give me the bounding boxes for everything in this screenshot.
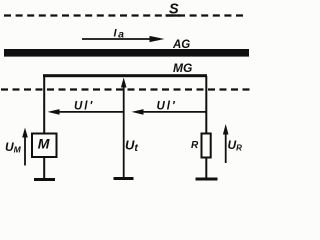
voltage arrow UM xyxy=(5,128,28,166)
wire: left riser xyxy=(43,76,45,134)
voltage arrow Ul' right xyxy=(132,101,207,115)
ground terminal left xyxy=(34,178,55,181)
svg-text:MG: MG xyxy=(173,61,192,75)
resistor R xyxy=(202,134,211,158)
svg-text:Ia: Ia xyxy=(114,28,126,41)
wire: circuit top rail xyxy=(43,74,207,77)
wire: below motor xyxy=(43,157,45,179)
voltage arrow UR xyxy=(223,124,242,163)
wire: right riser xyxy=(205,76,207,134)
voltage arrow Ut (middle riser) xyxy=(121,78,138,179)
svg-text:Ul′: Ul′ xyxy=(157,101,177,113)
svg-text:S: S xyxy=(169,2,179,18)
svg-text:M: M xyxy=(38,136,50,152)
voltage arrow Ul' left xyxy=(48,101,125,115)
node S bus (dashed line) xyxy=(4,14,247,16)
wire solid segment under S xyxy=(166,14,181,16)
wire: below resistor xyxy=(205,158,207,179)
ground terminal right xyxy=(196,178,218,181)
svg-text:Ul′: Ul′ xyxy=(74,101,94,113)
motor M xyxy=(32,134,57,158)
svg-text:R: R xyxy=(191,140,199,151)
current arrow Ia xyxy=(82,28,165,43)
AG busbar (thick bar) xyxy=(4,49,249,57)
dashed separator line xyxy=(1,88,250,90)
ground terminal middle xyxy=(114,177,134,180)
